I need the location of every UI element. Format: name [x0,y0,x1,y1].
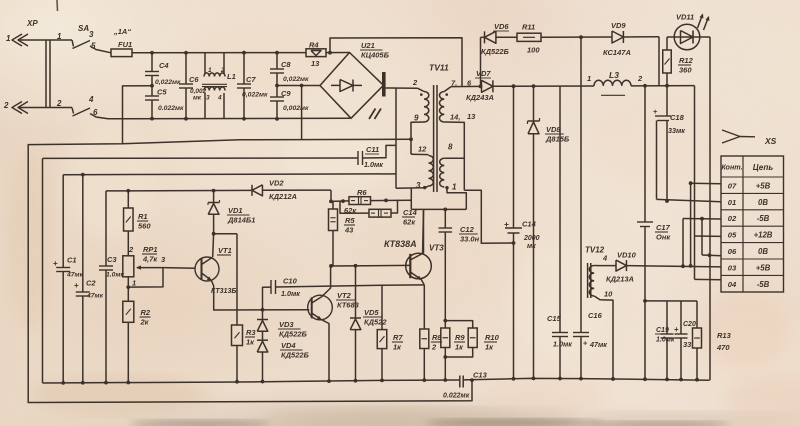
svg-text:13: 13 [467,112,476,121]
svg-text:2: 2 [637,74,643,83]
svg-text:560: 560 [138,222,151,231]
svg-text:Онк: Онк [656,233,671,242]
svg-text:VD11: VD11 [676,13,694,22]
svg-text:Конт.: Конт. [721,163,742,172]
svg-text:1: 1 [452,183,457,192]
svg-text:С1: С1 [67,256,77,265]
svg-text:02: 02 [728,214,737,223]
svg-text:2000: 2000 [523,235,540,242]
svg-text:R11: R11 [522,23,535,32]
svg-text:КД522Б: КД522Б [481,47,510,56]
svg-text:R6: R6 [357,188,367,197]
svg-text:+5В: +5В [756,181,771,190]
svg-text:SA: SA [78,24,89,33]
svg-text:С6: С6 [189,75,199,84]
svg-text:9: 9 [414,114,419,123]
svg-text:Цепь: Цепь [753,163,774,172]
svg-text:R7: R7 [393,333,403,342]
svg-text:+12В: +12В [754,231,773,240]
svg-text:47мк: 47мк [589,340,607,349]
svg-text:VD8: VD8 [546,125,561,134]
svg-text:VT1: VT1 [218,246,232,255]
svg-text:0.022мк: 0.022мк [158,105,184,112]
svg-text:С18: С18 [670,113,685,122]
svg-text:05: 05 [728,231,737,240]
svg-text:04: 04 [728,280,737,289]
svg-text:1: 1 [208,67,212,74]
svg-text:62к: 62к [403,218,416,227]
svg-text:+: + [53,259,58,268]
svg-text:КД243А: КД243А [466,93,494,102]
svg-text:-5В: -5В [757,280,770,289]
svg-text:01: 01 [728,198,736,207]
svg-text:R13: R13 [717,331,732,340]
svg-text:L3: L3 [609,70,619,80]
svg-text:КД522Б: КД522Б [279,330,308,339]
svg-text:XS: XS [764,136,777,146]
svg-text:47мк: 47мк [86,293,104,300]
svg-text:1.0мк: 1.0мк [106,272,124,279]
svg-text:VD7: VD7 [476,69,491,78]
svg-text:КТ838А: КТ838А [384,239,417,249]
svg-text:С11: С11 [366,145,379,154]
svg-text:4: 4 [88,95,94,104]
svg-text:КТ313Б: КТ313Б [211,288,236,295]
svg-text:4: 4 [602,254,608,263]
svg-text:мк: мк [193,95,202,102]
svg-text:TV11: TV11 [429,63,449,73]
svg-text:R12: R12 [679,56,694,65]
svg-text:КЦ405Б: КЦ405Б [361,51,390,60]
svg-text:U21: U21 [361,41,375,50]
svg-text:10: 10 [604,290,613,299]
svg-text:ХР: ХР [26,19,38,28]
svg-text:R2: R2 [141,308,151,317]
svg-text:VD6: VD6 [494,22,509,31]
svg-text:R9: R9 [455,333,465,342]
svg-text:С10: С10 [283,277,298,286]
svg-text:0,022мк: 0,022мк [155,79,181,86]
svg-text:1к: 1к [393,343,402,352]
svg-text:470: 470 [716,343,730,352]
svg-text:14,: 14, [450,113,460,122]
svg-text:С8: С8 [281,60,291,69]
svg-text:43: 43 [344,226,354,235]
svg-text:0В: 0В [758,247,768,256]
svg-text:КТ683: КТ683 [337,301,360,310]
svg-text:R10: R10 [485,333,500,342]
svg-text:1: 1 [132,279,136,288]
svg-text:С9: С9 [281,89,291,98]
svg-text:С12: С12 [460,225,475,234]
svg-text:0.022мк: 0.022мк [443,393,470,400]
svg-text:2: 2 [128,245,134,254]
svg-text:+: + [583,339,588,348]
svg-text:62к: 62к [344,206,357,215]
svg-text:VD1: VD1 [228,206,243,215]
svg-text:VТ3: VТ3 [429,244,444,253]
svg-text:13: 13 [311,59,320,68]
svg-text:1к: 1к [246,338,255,347]
svg-text:03: 03 [728,263,737,272]
svg-text:1к: 1к [455,343,464,352]
svg-text:FU1: FU1 [118,40,132,49]
svg-text:0,022мк: 0,022мк [242,92,268,99]
svg-text:2: 2 [412,78,418,87]
svg-text:47мк: 47мк [66,272,84,279]
svg-text:ТV12: ТV12 [585,246,605,255]
svg-text:Д815Б: Д815Б [545,135,570,144]
svg-text:С19: С19 [656,327,669,334]
svg-text:1.0мк: 1.0мк [364,160,383,169]
svg-text:С7: С7 [246,75,256,84]
svg-text:С3: С3 [107,255,117,264]
svg-text:КС147А: КС147А [603,48,631,57]
svg-text:КД522Б: КД522Б [281,351,310,360]
svg-text:С15: С15 [547,314,562,323]
svg-text:С17: С17 [656,223,671,232]
svg-text:1: 1 [6,34,11,43]
svg-text:2: 2 [56,99,62,108]
svg-text:VD5: VD5 [364,308,379,317]
svg-text:0В: 0В [758,198,768,207]
svg-text:С20: С20 [683,321,696,328]
svg-text:8: 8 [448,143,453,152]
svg-text:1.0мк: 1.0мк [281,289,300,298]
svg-text:С14: С14 [522,220,537,229]
svg-text:1.0мк: 1.0мк [656,337,675,344]
svg-text:VD3: VD3 [279,320,294,329]
svg-text:1: 1 [57,32,62,41]
svg-text:R5: R5 [345,216,355,225]
svg-text:06: 06 [728,247,737,256]
svg-text:7.: 7. [451,79,457,88]
svg-text:+: + [653,107,658,116]
svg-text:2: 2 [220,67,225,74]
svg-text:4: 4 [217,95,222,102]
svg-text:VT2: VT2 [337,291,352,300]
svg-text:-5В: -5В [757,214,770,223]
svg-text:R1: R1 [138,212,148,221]
svg-text:12: 12 [418,145,427,154]
svg-text:3: 3 [89,30,94,39]
svg-text:„1А“: „1А“ [113,27,131,36]
svg-text:VD2: VD2 [269,179,284,188]
svg-text:КД522: КД522 [364,318,387,327]
svg-text:R3: R3 [246,328,256,337]
svg-text:2: 2 [3,101,9,110]
svg-text:VD9: VD9 [611,21,626,30]
svg-text:5: 5 [91,42,96,51]
svg-text:0,022мк: 0,022мк [283,76,309,83]
svg-text:1к: 1к [485,343,494,352]
svg-text:КД213А: КД213А [606,275,634,284]
svg-text:С4: С4 [159,61,169,70]
svg-text:С5: С5 [157,88,167,97]
svg-text:2к: 2к [140,318,150,327]
svg-text:2: 2 [431,343,437,352]
svg-text:R8: R8 [432,333,442,342]
svg-text:07: 07 [728,181,737,190]
svg-text:RP1: RP1 [143,245,158,254]
svg-text:+: + [74,281,79,290]
svg-text:С14: С14 [403,208,418,217]
svg-text:R4: R4 [309,41,319,50]
svg-text:3: 3 [206,95,210,102]
svg-text:+: + [674,325,679,334]
svg-text:С13: С13 [473,371,488,380]
svg-text:+5В: +5В [756,263,771,272]
svg-text:4,7к: 4,7к [142,255,158,264]
svg-text:3: 3 [416,181,421,190]
svg-text:100: 100 [527,46,540,55]
svg-text:1: 1 [587,74,591,83]
svg-text:КД212А: КД212А [269,192,297,201]
svg-text:33: 33 [683,340,692,349]
svg-text:33мк: 33мк [668,126,685,135]
svg-text:VD10: VD10 [617,251,637,260]
svg-text:L1: L1 [227,72,236,81]
svg-text:мк: мк [527,243,536,250]
svg-text:0,002мк: 0,002мк [283,105,309,112]
svg-text:Д814Б1: Д814Б1 [227,216,255,225]
svg-text:33.0н: 33.0н [460,235,480,244]
svg-text:VD4: VD4 [281,341,296,350]
svg-text:6: 6 [93,108,98,117]
svg-text:С2: С2 [86,279,96,288]
svg-text:360: 360 [679,66,692,75]
svg-text:1.0мк: 1.0мк [553,340,572,349]
svg-text:+: + [504,219,509,229]
svg-text:С16: С16 [588,311,603,320]
